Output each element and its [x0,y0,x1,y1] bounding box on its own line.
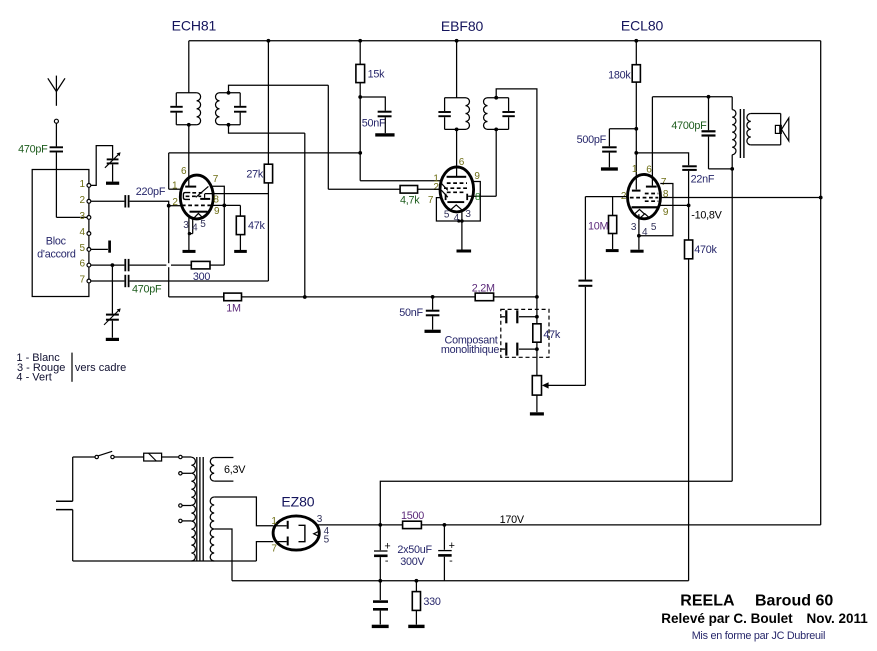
bloc pin 4 [87,232,91,236]
chassis bar under 50nF AF [425,330,441,333]
note separator [71,353,73,382]
junction AVC/IF1 return [303,295,307,299]
wire 4.7k to EBF80 pin2 [418,188,440,190]
svg-text:4700pF: 4700pF [671,120,707,132]
svg-text:4 - Vert: 4 - Vert [16,372,51,384]
EBF80 cathode caret [450,205,463,211]
svg-text:2x50uF: 2x50uF [397,544,432,556]
wire HT+ top bus [189,40,821,42]
junction cathode/pin7 loop [637,234,641,238]
ECH81 heptode anode plate [185,186,196,188]
wire trimmer to chassis [112,164,114,181]
tuning variable capacitor [106,314,119,316]
wire HT top to EZ80 pin1 [214,497,273,526]
wire 220pF to ECH81 pin2 [130,201,169,205]
svg-text:15k: 15k [368,69,386,81]
wire to switch [73,456,95,458]
junction grid node [167,204,171,208]
chassis plate at pin5 [108,241,111,253]
junction primary bottom [730,167,734,171]
antenna [55,76,57,106]
wire HT+ right rail [820,41,822,525]
wire IF2 secondary top to detector line [496,89,537,297]
svg-text:-10,8V: -10,8V [691,210,722,222]
svg-text:4: 4 [79,227,85,238]
wire bloc pin2 to 220pF [91,200,125,202]
junction 500pF [634,127,638,131]
monolithic capacitor upper [501,316,505,318]
svg-text:EZ80: EZ80 [281,494,314,510]
ECL80 cathode wire [638,214,640,249]
wire primary bottom to B+ feed [731,169,733,481]
wire 470pF to 300 ohm (gap at rail crossing) [130,264,167,266]
svg-text:7: 7 [79,275,85,286]
wire HT bus to IF2 primary [456,41,458,98]
antenna terminal [54,119,58,123]
svg-text:Mis en forme par JC Dubreuil: Mis en forme par JC Dubreuil [692,630,825,642]
junction rectifier output [378,523,382,527]
potentiometer volume [532,376,541,396]
bloc pin 6 [87,263,91,267]
HT secondary winding [210,497,214,561]
EBF80 grid diagonals [441,183,448,190]
ground bar under ECL80 [630,250,643,253]
svg-text:monolithique: monolithique [441,344,499,356]
wire bloc pin6 to 470pF osc [91,264,125,266]
junction HT bus / 180k [634,39,638,43]
svg-text:5: 5 [324,534,330,545]
resistor 4.7k [328,188,400,190]
junction cap1/bias bus [378,579,382,583]
svg-text:22nF: 22nF [691,174,715,186]
svg-text:1: 1 [632,164,638,175]
wire ECH81 pin8 to 27k bottom [205,193,269,195]
junction pin6 / tuning capacitor [111,263,115,267]
wire 170V line [444,524,820,526]
IF transformer 2 primary tank [445,97,466,99]
ECH81 triode anode bar pin8 [200,198,210,200]
ECL80 cathode bar [632,206,658,208]
svg-text:1M: 1M [226,303,241,315]
switch [95,455,98,458]
capacitor 470pF osc upper [124,259,126,271]
junction IF2 secondary top [494,96,498,100]
ECH81 grid hook [183,193,190,200]
electrolytic capacitor 2 50uF [443,525,445,550]
wire bloc pin5 stub [91,248,108,250]
wire mains top [72,457,74,501]
tube ECL80 envelope [628,174,661,218]
svg-text:9: 9 [474,171,480,182]
EZ80 cathode bracket [299,525,305,541]
svg-text:REELA: REELA [680,593,735,610]
resistor 47k cathode [236,216,244,235]
IF transformer 1 secondary tank [220,92,241,94]
wire ECL80 anode to output transformer [652,96,732,98]
svg-text:3: 3 [317,514,323,525]
junction pin7/pin9 [222,204,226,208]
wire 180k from bus [635,41,637,65]
wire 15k node to EBF80 pin1 [360,180,441,182]
wire ECL80 grid pin2 [585,196,627,198]
svg-text:9: 9 [663,207,669,218]
junction cathode/loop [460,219,464,223]
ground bar under ECH81 [183,250,196,253]
EBF80 cathode down wire [461,212,463,250]
bloc pin 7 [87,279,91,283]
EBF80 anode plate [447,176,467,178]
wire pot to ground [536,395,538,412]
capacitor IF2 secondary [502,111,514,113]
wire pin1 node to 22nF [636,153,688,165]
speaker driver [775,125,781,133]
wire to 50nF [360,97,385,111]
coil IF1 secondary [216,93,220,125]
junction upper cap [535,315,539,319]
svg-text:470pF: 470pF [132,284,162,296]
svg-text:vers cadre: vers cadre [75,362,126,374]
ECH81 grid dashes row3 [182,204,212,206]
wire left rail from 152.9 line to pin1 [168,153,170,189]
tube ECH81 envelope [180,175,213,219]
svg-text:47k: 47k [543,329,561,341]
EBF80 diode plates [445,194,447,200]
chassis bar under trimmer CV1 [106,182,119,185]
svg-text:ECH81: ECH81 [172,17,217,33]
svg-text:+: + [449,540,455,552]
svg-text:3: 3 [465,209,471,220]
svg-text:8: 8 [475,192,481,203]
wire coupling cap to pot wiper [584,287,586,386]
svg-text:5: 5 [200,219,206,230]
svg-text:6,3V: 6,3V [224,464,246,476]
junction 4700pF [707,95,711,99]
wire bias bus [232,580,689,582]
svg-text:+: + [384,540,390,552]
wire 470k to bias bus [688,259,690,581]
resistor 1500 [380,524,402,526]
ECL80 grid dashes [645,193,659,195]
svg-text:2: 2 [433,182,439,193]
resistor 300 [191,261,210,269]
wire to 500pF [609,128,636,130]
svg-text:6: 6 [459,157,465,168]
svg-text:9: 9 [214,206,220,217]
svg-text:170V: 170V [500,514,525,526]
wire tuning cap feed [111,265,113,314]
svg-text:470k: 470k [694,244,717,256]
svg-text:3: 3 [183,220,189,231]
capacitor IF1 secondary [234,106,246,108]
svg-text:500pF: 500pF [577,134,607,146]
wire 15k from bus [359,41,361,65]
resistor 2.2M [475,293,493,301]
ground bar under 47k [234,250,247,253]
chassis bar under 50nF [375,133,394,136]
resistor 47k monolithic [533,324,541,342]
wire mains bottom [72,510,74,561]
fuse [144,453,162,461]
svg-text:ECL80: ECL80 [621,18,664,34]
svg-text:3: 3 [79,211,85,222]
svg-text:7: 7 [428,195,434,206]
ECH81 pin1 wire [169,188,181,190]
power transformer core [196,457,198,561]
wire bloc pin7 to 470pF [91,280,125,282]
wire EZ80 cathode out [317,524,381,526]
svg-text:50nF: 50nF [399,307,423,319]
svg-text:2: 2 [172,197,178,208]
wire 15k bottom [359,83,361,181]
ECL80 triode grid bar pin1 [632,190,641,192]
wire B+ riser to output transformer [380,481,732,525]
EBF80 pin8 wire to IF2 secondary [468,195,496,197]
junction IF2 primary bottom [455,127,459,131]
coil IF2 primary [466,98,470,130]
tap leads [182,456,191,458]
svg-text:4: 4 [192,222,198,233]
ECH81 pin7 wire [211,186,224,265]
svg-text:7: 7 [271,544,277,555]
svg-text:5: 5 [651,222,657,233]
composant monolithique dashed box [501,309,549,357]
wire bottom return [73,560,257,562]
wire 4700pF bottom to primary bottom [709,168,733,170]
svg-text:1: 1 [172,181,178,192]
wire HT bus to IF1 primary [188,41,190,93]
wire secondary to speaker [751,113,781,115]
capacitor IF2 primary [438,111,450,113]
svg-text:4: 4 [642,227,648,238]
tube EBF80 envelope [440,167,474,212]
junction HT bus / 15k [358,39,362,43]
wire switch to fuse [114,456,144,458]
resistor 1M [224,293,242,301]
ECH81 cathode caret [193,213,203,218]
output transformer core [739,109,741,158]
capacitor IF1 primary [170,106,182,108]
svg-text:Relevé par C. Boulet: Relevé par C. Boulet [661,611,793,626]
wire 470pF to 27k bottom node [130,280,269,282]
svg-text:3: 3 [631,222,637,233]
wire 22nF to pin9 node [688,171,690,206]
chassis bar under tuning capacitor [106,338,119,341]
capacitor 50nF screen [378,111,392,113]
ECH81 triode anode diagonal [196,186,209,197]
output transformer secondary [747,114,751,145]
bloc pin 3 [87,216,91,220]
coil IF1 primary [197,93,201,125]
ground bar under 330 [408,625,424,628]
wire detector node to 47k [536,297,538,376]
svg-text:300V: 300V [400,556,425,568]
capacitor 50nF AF [432,297,434,310]
bloc pin 1 [87,184,91,188]
svg-text:EBF80: EBF80 [441,18,484,34]
svg-text:6: 6 [79,259,85,270]
junction HT bus / 27k feed [267,39,271,43]
EZ80 anode plate pin7 [287,537,289,546]
svg-text:7: 7 [661,177,667,188]
electrolytic capacitor 1 50uF [379,525,381,550]
coil IF2 secondary [484,98,488,130]
speaker horn [782,118,789,141]
capacitor 470pF osc lower [124,275,126,287]
resistor 15k [356,64,365,82]
wire HT bottom to EZ80 pin7 [256,542,273,561]
wire 27k bottom to 470pF line [267,183,269,281]
monolithic capacitor lower [501,348,505,350]
svg-text:4,7k: 4,7k [400,194,420,206]
chassis bar under 500pF [601,167,618,170]
junction pin9/22nF/470k [687,204,691,208]
svg-text:7: 7 [213,174,219,185]
junction 15k/50nF [358,95,362,99]
bloc d'accord box [32,170,89,297]
junction lower cap [535,347,539,351]
wire IF2 secondary bottom to diode pin8 [495,129,497,196]
junction 15k/screen line [358,151,362,155]
ECH81 cathode bar [190,211,208,213]
capacitor 4700pF [708,97,710,131]
ground bar bottom left [372,625,389,628]
svg-text:6: 6 [646,165,652,176]
ECL80 pentode anode bar pin6 [646,186,657,188]
svg-text:470pF: 470pF [18,143,48,155]
svg-text:1: 1 [271,516,277,527]
svg-text:Bloc: Bloc [46,236,67,248]
svg-text:27k: 27k [246,169,264,181]
wire screen line y=152.9 [169,152,361,154]
ECH81 grid dashes row1 [192,192,202,194]
trimmer capacitor CV1 [107,158,119,160]
junction HT bus / IF2 primary [455,39,459,43]
tube EZ80 envelope [273,516,319,550]
wire pin9 node to 470k [688,205,690,240]
svg-text:5: 5 [79,243,85,254]
coupling capacitor to grid [584,197,586,280]
capacitor 500pF [602,146,617,148]
svg-text:330: 330 [423,596,441,608]
svg-text:180k: 180k [608,70,631,82]
EZ80 anode plate pin1 [287,521,289,529]
svg-text:6: 6 [181,166,187,177]
wire IF1 secondary bottom to AVC bus [229,125,305,133]
junction IF2 secondary bottom [494,127,498,131]
junction detector node [535,295,539,299]
potentiometer wiper arrow [548,384,585,386]
ECH81 pin9 wire to 47k [213,204,241,206]
transformer tap terminals [179,455,182,458]
wire fuse to transformer tap1 [162,456,179,458]
EBF80 cathode bar [447,201,464,203]
svg-text:1: 1 [79,179,85,190]
IF transformer 2 secondary tank [488,97,509,99]
wire ECL80 pin6 anode up [651,97,653,186]
svg-text:2: 2 [79,195,85,206]
junction 170V node [443,523,447,527]
bloc pin 5 [87,248,91,252]
junction IF1 secondary bottom [227,123,231,127]
wire 180k to ECL80 pin1 [635,82,637,189]
wire antenna to 470pF [55,123,57,146]
wire 300 to ECH81 pin7 [210,264,224,266]
junction pin8/rail [819,196,823,200]
capacitor 22nF [682,165,697,167]
svg-text:Baroud 60: Baroud 60 [755,593,833,610]
svg-text:220pF: 220pF [136,186,166,198]
EBF80 grid dashes rows [447,182,467,184]
junction IF1 secondary top [227,91,231,95]
resistor 10M [612,197,614,216]
svg-text:50nF: 50nF [362,117,386,129]
resistor 180k [632,65,640,82]
wire HT center tap to bias bus [214,529,232,581]
junction AVC/50nF [431,295,435,299]
resistor 330 [415,579,419,583]
resistor 27k [264,164,272,183]
ECH81 grid dashes row2 [186,195,202,197]
junction cathode [188,232,191,235]
wire bloc pin1 to trimmer [91,146,113,186]
ground bar under 10M [606,249,619,252]
resistor 470k [685,240,693,259]
IF transformer 1 primary tank [176,92,196,94]
bloc pin 2 [87,199,91,203]
wire 470pF to bloc pin3 [55,153,57,218]
svg-text:4: 4 [454,213,460,224]
svg-text:Nov. 2011: Nov. 2011 [807,611,869,626]
wire IF1 primary to ECH81 anode pin6 [188,125,190,186]
junction IF1 primary bottom [187,123,191,127]
svg-text:2,2M: 2,2M [472,282,495,294]
svg-text:5: 5 [444,209,450,220]
wire IF2 primary to EBF80 anode [456,129,458,176]
wire 27k feed from bus [267,41,269,164]
wire grid node down to 1M line [168,206,170,264]
svg-text:47k: 47k [248,220,266,232]
ECH81 cathode leads pins 3 4 [188,216,190,233]
junction grid coupling [634,151,638,155]
capacitor to chassis [379,581,381,600]
svg-text:8: 8 [213,195,219,206]
EZ80 cathode arrow [314,531,319,536]
power transformer primary winding [191,457,195,561]
svg-text:8: 8 [663,189,669,200]
svg-text:1500: 1500 [401,510,424,522]
ground bar under EBF80 [457,250,472,253]
capacitor 220pF [124,195,126,207]
ECL80 cathode carets [635,209,645,214]
svg-text:10M: 10M [588,220,609,232]
wire IF1 secondary top to 4.7k [229,85,329,93]
ground bar under potentiometer [530,412,544,415]
svg-text:d'accord: d'accord [37,248,76,260]
wire AVC bus [169,296,224,298]
heater winding 6.3V [210,458,214,482]
mains plug prongs [56,500,73,502]
capacitor 470pF antenna [50,146,63,148]
output transformer primary [731,97,733,110]
